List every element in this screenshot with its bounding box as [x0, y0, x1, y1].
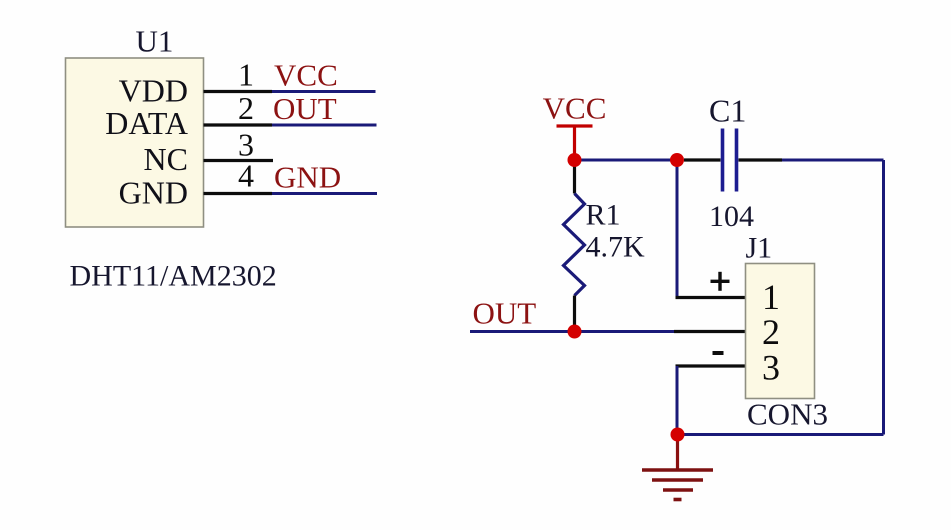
wire pin2 to OUT net — [272, 124, 377, 127]
svg-text:4.7K: 4.7K — [586, 231, 646, 264]
svg-text:VCC: VCC — [543, 91, 607, 126]
svg-text:DHT11/AM2302: DHT11/AM2302 — [70, 260, 277, 293]
junction dot at R1/OUT node — [568, 325, 582, 339]
svg-text:2: 2 — [238, 90, 254, 126]
svg-text:R1: R1 — [586, 199, 621, 232]
plus sign label — [711, 272, 730, 291]
svg-text:1: 1 — [238, 57, 254, 93]
svg-text:VDD: VDD — [119, 73, 188, 109]
pin 2 stub of U1 — [204, 123, 273, 126]
svg-text:U1: U1 — [136, 24, 174, 59]
wire VCC node to C1 node — [575, 159, 678, 162]
svg-text:J1: J1 — [746, 232, 773, 265]
wire C1 right to right rail — [782, 159, 884, 162]
svg-text:C1: C1 — [709, 93, 746, 129]
minus sign label — [713, 351, 724, 355]
svg-text:NC: NC — [144, 141, 188, 177]
pin 4 stub of U1 — [204, 192, 273, 195]
junction dot at ground node — [671, 428, 685, 442]
svg-text:3: 3 — [762, 348, 780, 388]
wire OUT net to J1 pin 2 — [470, 330, 674, 333]
svg-text:OUT: OUT — [473, 296, 537, 331]
connector J1 body — [746, 264, 815, 399]
ground symbol — [642, 435, 713, 500]
svg-text:GND: GND — [274, 160, 341, 195]
svg-text:CON3: CON3 — [747, 397, 828, 432]
pin 1 stub of U1 — [204, 90, 273, 93]
junction dot at VCC/R1 node — [568, 153, 582, 167]
svg-text:OUT: OUT — [273, 91, 337, 126]
J1 pin 2 stub — [674, 330, 746, 333]
wire pin1 to VCC net — [272, 90, 376, 93]
svg-text:4: 4 — [238, 158, 254, 194]
power port VCC bar symbol — [557, 126, 593, 160]
wire C1 node down to J1 pin 1 — [676, 160, 679, 298]
wire J1 pin 3 down to ground node — [676, 366, 679, 435]
capacitor C1 — [684, 129, 782, 192]
resistor R1 — [564, 160, 585, 332]
wire right rail down — [882, 160, 885, 435]
svg-text:1: 1 — [762, 277, 780, 317]
J1 pin 1 stub — [676, 296, 746, 299]
pin 3 stub of U1 — [204, 159, 274, 162]
wire pin4 to GND net — [272, 192, 377, 195]
svg-text:104: 104 — [709, 200, 754, 233]
svg-text:VCC: VCC — [274, 58, 338, 93]
J1 pin 3 stub — [676, 364, 746, 367]
svg-text:GND: GND — [119, 175, 188, 211]
svg-text:2: 2 — [762, 312, 780, 352]
component U1 body — [66, 58, 204, 227]
junction dot at C1 node — [670, 153, 684, 167]
wire bottom rail to ground node — [678, 433, 884, 436]
svg-text:DATA: DATA — [105, 105, 188, 141]
